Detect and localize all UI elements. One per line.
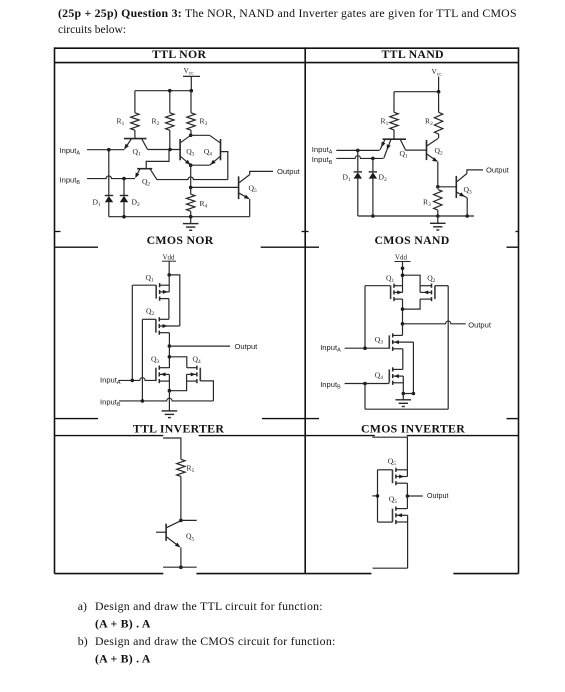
- wire Q3 collector to output: [467, 170, 483, 174]
- diode D1: [105, 195, 113, 197]
- wire D2 branch upper: [123, 179, 125, 196]
- svg-text:TTL INVERTER: TTL INVERTER: [133, 421, 225, 435]
- svg-text:Q3: Q3: [151, 355, 159, 366]
- node Q4 drain branch junction: [168, 355, 172, 359]
- node InputB junction: [141, 399, 145, 403]
- wire Q5 base: [191, 186, 239, 188]
- svg-text:R3: R3: [200, 117, 208, 128]
- wire Q2 gate lead: [142, 318, 156, 320]
- node Q5 base junction: [189, 186, 193, 190]
- svg-text:TTL NAND: TTL NAND: [382, 47, 444, 61]
- wire NMOS source drop: [407, 515, 409, 568]
- node rail-R2 junction: [168, 89, 172, 93]
- transistor Q1: [124, 138, 147, 140]
- wire Q1 gate lead: [132, 284, 156, 286]
- wire InputB riser: [447, 286, 449, 410]
- wire Q2 emitter drop: [437, 162, 439, 187]
- node InputA-D1 junction: [107, 148, 111, 152]
- resistor R2: [166, 113, 174, 130]
- transistor Q2 (PMOS mirrored, CMOS NAND): [434, 286, 436, 299]
- wire Q5 collector to output: [250, 171, 273, 174]
- resistor R1: [390, 112, 398, 130]
- svg-text:R4: R4: [200, 199, 208, 210]
- svg-text:Vcc: Vcc: [432, 67, 443, 78]
- svg-text:CMOS NOR: CMOS NOR: [147, 233, 214, 247]
- svg-text:Q1: Q1: [133, 147, 141, 158]
- wire Q2 base branch: [146, 150, 169, 169]
- node D2-rail junction: [122, 215, 126, 219]
- wire top rail: [394, 91, 439, 93]
- wire Vdd to body-bypass rail: [169, 275, 180, 326]
- svg-text:Output: Output: [486, 166, 510, 175]
- power Vcc terminal bar: [183, 75, 200, 77]
- wire D1 branch upper: [357, 150, 359, 171]
- svg-text:Vdd: Vdd: [163, 253, 176, 261]
- node base junction (R2, Q2 base): [168, 148, 172, 152]
- wire top rail: [135, 90, 191, 92]
- wire bottom rail (TTL inverter): [163, 566, 197, 568]
- wire R4 lower lead: [190, 211, 192, 217]
- wire Q2 body to bypass rail: [177, 325, 180, 327]
- svg-text:D2: D2: [132, 198, 140, 209]
- svg-text:InputB: InputB: [100, 397, 121, 408]
- wire InputB with hop over D1 branch: [336, 156, 383, 159]
- svg-text:Q5: Q5: [249, 183, 257, 194]
- wire R3 lower lead: [437, 210, 439, 216]
- svg-text:CMOS INVERTER: CMOS INVERTER: [361, 421, 465, 435]
- wire top rail (TTL inverter): [163, 438, 181, 459]
- transistor Q5b (NMOS, CMOS inverter): [392, 509, 394, 522]
- node InputA-D1 junction: [356, 149, 360, 153]
- svg-text:D1: D1: [343, 173, 351, 184]
- wire Q5 emitter to rail: [249, 199, 251, 217]
- wire output: [407, 495, 422, 497]
- transistor Q5 (PMOS, CMOS inverter): [392, 470, 394, 483]
- wire input stub: [372, 495, 377, 497]
- svg-text:R1: R1: [117, 117, 125, 128]
- wire R1 upper lead: [393, 92, 395, 113]
- wire InputB with hop over ground stem: [119, 398, 213, 401]
- node ground junction (CMOS NAND): [402, 392, 406, 396]
- svg-text:Q5: Q5: [389, 494, 397, 505]
- wire Q3 base: [438, 186, 457, 188]
- svg-text:Output: Output: [277, 167, 301, 176]
- wire Q1 collector to Q2 base: [406, 149, 427, 151]
- transistor Q5 (TTL inverter): [165, 524, 167, 541]
- wire InputB with hop over D1 branch: [87, 176, 135, 179]
- node InputB-D2 junction: [371, 157, 375, 161]
- svg-text:R5: R5: [187, 463, 195, 474]
- wire collector stub: [181, 519, 197, 521]
- svg-text:InputB: InputB: [320, 380, 341, 391]
- svg-text:Q5: Q5: [186, 532, 194, 543]
- wire Q3 emitter to rail: [465, 197, 468, 216]
- diode D2: [120, 195, 128, 197]
- svg-text:(A + B) . A: (A + B) . A: [95, 652, 151, 666]
- svg-text:Design and draw the TTL circui: Design and draw the TTL circuit for func…: [95, 599, 323, 613]
- wire Q4 source/body to ground node: [169, 374, 186, 390]
- svg-text:InputA: InputA: [320, 343, 341, 354]
- node output junction (CMOS NAND): [401, 322, 405, 326]
- svg-text:Output: Output: [235, 342, 259, 351]
- wire bottom rail (CMOS inverter): [373, 567, 408, 569]
- svg-text:Q3: Q3: [464, 185, 472, 196]
- node InputB junction: [363, 382, 367, 386]
- wire InputB: [345, 383, 390, 385]
- wire PMOS gate lead: [378, 469, 393, 471]
- svg-text:InputA: InputA: [100, 376, 121, 387]
- node Vdd junction: [167, 273, 171, 277]
- diode D1 (TTL NAND): [354, 171, 362, 173]
- wire InputA: [336, 149, 379, 151]
- svg-text:(A + B) . A: (A + B) . A: [95, 617, 151, 631]
- wire InputB drop to bottom loop: [364, 384, 366, 410]
- resistor R4: [187, 194, 195, 211]
- svg-text:InputA: InputA: [312, 145, 333, 156]
- svg-text:CMOS NAND: CMOS NAND: [374, 233, 449, 247]
- wire output node to NMOS drain: [406, 496, 408, 509]
- wire InputA riser: [131, 285, 133, 380]
- node InputB-D2 junction: [122, 177, 126, 181]
- wire Vdd stub: [402, 262, 404, 293]
- svg-text:Q2: Q2: [427, 273, 435, 284]
- svg-text:Vdd: Vdd: [395, 254, 408, 262]
- wire R2 upper lead: [169, 91, 171, 113]
- wire D2 branch lower: [123, 202, 125, 217]
- wire Q1 collector to Q3 base: [148, 149, 180, 151]
- wire Q2 gate lead: [435, 285, 448, 287]
- node Q3 emitter-rail junction: [465, 214, 469, 218]
- wire Q3 source to Q4 drain: [402, 349, 404, 370]
- wire gate loop riser: [377, 470, 379, 522]
- node body tie junction: [412, 392, 416, 396]
- svg-text:TTL NOR: TTL NOR: [152, 47, 206, 61]
- svg-text:Q1: Q1: [146, 273, 154, 284]
- wire drain node to NMOS stack: [402, 299, 404, 335]
- wire ground rail: [358, 215, 474, 217]
- wire R1 lower lead: [134, 130, 136, 138]
- wire R1 lower lead: [393, 130, 395, 139]
- svg-text:D2: D2: [379, 173, 387, 184]
- wire R3 upper lead: [190, 91, 192, 113]
- node Vdd junction 1: [401, 267, 405, 271]
- node output junction (CMOS NOR): [168, 344, 172, 348]
- svg-text:Output: Output: [468, 320, 492, 329]
- svg-text:Q4: Q4: [375, 371, 383, 382]
- svg-text:R1: R1: [381, 117, 389, 128]
- ground symbol (CMOS NAND): [402, 394, 404, 400]
- transistor Q2 (PMOS): [155, 319, 157, 332]
- wire Q3 body riser to ground: [412, 342, 414, 393]
- node Q3-Q4 emitter junction: [189, 163, 193, 167]
- wire D1 branch lower: [357, 179, 359, 216]
- svg-text:Q2: Q2: [142, 177, 150, 188]
- wire output: [169, 345, 230, 347]
- transistor Q2: [426, 140, 428, 160]
- svg-text:R3: R3: [423, 198, 431, 209]
- node R3-Q3-Q4 collector junction: [189, 134, 193, 138]
- wire Vcc stub: [190, 76, 192, 90]
- wire R3 lower lead: [190, 130, 192, 135]
- wire Q2 collector to Q4 base with hop: [157, 177, 228, 180]
- svg-text:(25p + 25p) Question 3: The NO: (25p + 25p) Question 3: The NOR, NAND an…: [58, 6, 517, 20]
- wire phase-splitter emitter drop: [190, 165, 192, 194]
- wire Q4 base tap: [221, 152, 228, 180]
- resistor R3: [434, 189, 442, 210]
- node InputA junction: [363, 346, 367, 350]
- ground symbol (TTL NOR): [190, 217, 192, 224]
- wire Q5 emitter drop: [180, 547, 182, 567]
- wire output with hop over InputB riser: [403, 321, 466, 324]
- wire Q2 drain to output node: [168, 333, 170, 346]
- wire output node down to NMOS drains: [168, 346, 170, 368]
- wire Vdd rail to Q2 source: [403, 275, 421, 292]
- node R3-rail junction: [436, 214, 440, 218]
- svg-text:b): b): [78, 634, 88, 648]
- svg-text:Q3: Q3: [375, 335, 383, 346]
- wire ground rail: [109, 216, 250, 218]
- node D2-rail junction: [371, 214, 375, 218]
- wire bottom loop to Q2 gate riser: [365, 408, 448, 410]
- node input junction: [376, 494, 380, 498]
- wire Vcc stub: [438, 77, 440, 92]
- node InputA junction: [131, 379, 135, 383]
- transistor Q2: [137, 168, 152, 170]
- wire InputA: [345, 347, 390, 349]
- transistor Q1 (PMOS): [155, 285, 157, 298]
- wire Q4 drain branch: [169, 357, 186, 368]
- transistor Q1 (PMOS, CMOS NAND): [390, 286, 392, 299]
- wire R1 upper lead: [134, 91, 136, 113]
- resistor R3: [187, 113, 195, 130]
- svg-text:a): a): [78, 599, 87, 613]
- ground symbol (CMOS NOR): [168, 391, 170, 411]
- wire top rail (CMOS inverter): [372, 437, 407, 476]
- transistor Q3 (NMOS, CMOS NAND): [388, 335, 390, 348]
- wire NMOS gate lead: [378, 521, 393, 523]
- wire InputA: [87, 149, 125, 151]
- wire R2 lower lead: [438, 134, 440, 138]
- node rail-Vcc junction: [437, 90, 441, 94]
- wire R2 lower lead: [169, 130, 171, 149]
- node Vdd junction 2: [401, 273, 405, 277]
- wire Q1 gate lead: [365, 285, 391, 287]
- svg-text:Q1: Q1: [386, 273, 394, 284]
- svg-text:Q4: Q4: [204, 147, 212, 158]
- wire Q4 source/body to ground node: [402, 376, 404, 393]
- wire InputB riser: [141, 319, 143, 401]
- transistor Q4 (NMOS, CMOS NAND): [388, 369, 390, 382]
- wire ground tie bar: [403, 393, 413, 395]
- resistor R5: [177, 459, 185, 476]
- transistor Q4 (NMOS mirrored): [199, 368, 201, 381]
- diode D2 (TTL NAND): [369, 171, 377, 173]
- svg-text:Design and draw the CMOS circu: Design and draw the CMOS circuit for fun…: [95, 634, 336, 648]
- svg-text:InputB: InputB: [60, 176, 81, 187]
- transistor Q1 (dual emitter): [383, 138, 407, 140]
- resistor R2: [434, 112, 442, 134]
- node emitter-rail junction: [179, 565, 183, 569]
- transistor Q3 (TTL NAND): [455, 176, 457, 198]
- svg-text:Vcc: Vcc: [184, 66, 195, 77]
- node Q3 base junction: [436, 185, 440, 189]
- node ground junction: [168, 389, 172, 393]
- svg-text:D1: D1: [93, 198, 101, 209]
- wire Vdd stub: [168, 261, 170, 275]
- wire InputA with hop over InputB riser: [119, 378, 156, 381]
- ground symbol (TTL NAND): [437, 216, 439, 223]
- transistor Q4: [191, 134, 210, 136]
- resistor R1: [131, 113, 139, 130]
- wire R2 upper lead: [438, 92, 440, 113]
- wire R5 lower lead: [180, 476, 182, 520]
- svg-text:Q3: Q3: [186, 147, 194, 158]
- svg-text:Q4: Q4: [193, 355, 201, 366]
- svg-text:R2: R2: [152, 117, 160, 128]
- svg-text:InputB: InputB: [312, 155, 333, 166]
- node Q5 collector junction: [179, 519, 183, 523]
- wire emitter tie bar: [191, 164, 210, 166]
- wire D1 branch upper: [108, 150, 110, 196]
- node R4-rail junction: [189, 215, 193, 219]
- wire Q4 gate lead: [200, 381, 213, 401]
- wire PMOS drain to output node: [406, 483, 408, 496]
- wire InputA riser: [364, 286, 366, 349]
- wire D2 branch upper: [372, 158, 374, 171]
- node output junction (CMOS inverter): [406, 494, 410, 498]
- svg-text:circuits below:: circuits below:: [58, 24, 126, 36]
- node rail-R3-Vcc junction: [190, 89, 194, 93]
- svg-text:Q2: Q2: [435, 146, 443, 157]
- svg-text:InputA: InputA: [60, 146, 81, 157]
- svg-text:Q5: Q5: [388, 456, 396, 467]
- wire Q1 drain to Q2 source: [168, 299, 170, 320]
- wire Q3 source/body to ground node: [168, 374, 170, 390]
- svg-text:Output: Output: [427, 491, 449, 500]
- wire D1 branch lower: [108, 202, 110, 217]
- transistor Q3: [180, 135, 190, 142]
- wire D2 branch lower: [372, 179, 374, 216]
- wire Q1 source/body to Vdd: [168, 275, 170, 292]
- transistor Q3 (NMOS): [155, 368, 157, 381]
- transistor Q5: [238, 176, 240, 199]
- svg-text:R2: R2: [425, 117, 433, 128]
- wire Q2 drain route: [403, 299, 421, 309]
- svg-text:Q2: Q2: [146, 307, 154, 318]
- node Q2 drain junction: [401, 307, 405, 311]
